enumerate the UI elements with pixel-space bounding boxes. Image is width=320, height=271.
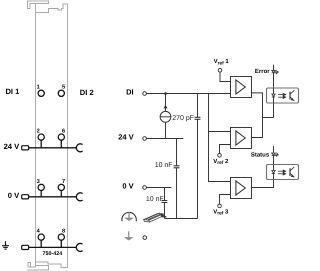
optocoupler status LED xyxy=(273,165,275,171)
module housing bottom-left foot xyxy=(28,262,36,267)
svg-text:3: 3 xyxy=(37,179,40,185)
svg-text:10 nF: 10 nF xyxy=(146,196,164,203)
svg-text:Status: Status xyxy=(251,151,270,158)
svg-text:5: 5 xyxy=(62,85,65,91)
optocoupler status light arrows xyxy=(278,170,286,175)
op-amp comparator U2 box xyxy=(231,128,252,149)
current source circle xyxy=(160,111,171,122)
op-amp comparator U3 box xyxy=(231,178,252,199)
terminal pin 3 xyxy=(38,184,44,190)
svg-text:750-424: 750-424 xyxy=(43,251,63,257)
op-amp comparator U3 triangle xyxy=(236,181,245,195)
module housing bottom plate xyxy=(28,266,49,271)
wire row 3 xyxy=(29,196,77,198)
op-amp comparator U1 box xyxy=(231,77,252,98)
wire Vref2 to U2 xyxy=(220,145,231,154)
svg-text:270 pF: 270 pF xyxy=(172,115,194,122)
wire Vref1 to U1 xyxy=(220,72,231,82)
capacitor C 10nF on V2 xyxy=(176,139,178,166)
terminal pin 5 xyxy=(58,90,64,96)
wire row 4 xyxy=(29,246,77,248)
terminal pin 7 xyxy=(58,184,64,190)
plug terminal row 4 xyxy=(22,245,29,249)
svg-text:1: 1 xyxy=(37,85,40,91)
svg-text:0 V: 0 V xyxy=(122,182,133,191)
svg-text:DI: DI xyxy=(126,87,134,96)
wire error node to opto xyxy=(263,117,274,119)
terminal pin 8 xyxy=(58,234,64,240)
capacitor C 10nF on 0V branch xyxy=(164,188,166,201)
terminal pin 2 xyxy=(38,134,44,140)
terminal pin 6 xyxy=(58,134,64,140)
junction dot DI/current-source xyxy=(164,92,167,95)
svg-text:2: 2 xyxy=(37,129,40,135)
LED Status xyxy=(273,146,275,153)
wire U2 output xyxy=(252,118,263,138)
wire Vref3 to U3 xyxy=(220,195,231,205)
stem pin col1 row 3 xyxy=(40,191,42,197)
cage clamp row 3 xyxy=(76,193,82,201)
optocoupler status phototransistor xyxy=(289,168,291,176)
svg-text:Error: Error xyxy=(255,68,270,75)
optocoupler status box xyxy=(267,165,299,180)
functional earth rail symbol xyxy=(144,213,167,222)
svg-text:0 V: 0 V xyxy=(8,191,20,200)
stem pin col2 row 4 xyxy=(60,240,62,247)
LED Error xyxy=(273,65,275,71)
node Vref1 terminal xyxy=(218,69,222,73)
svg-text:24 V: 24 V xyxy=(4,142,21,151)
wire row 2 xyxy=(29,147,77,149)
current source Q stem + arrow xyxy=(165,94,167,112)
svg-text:DI 1: DI 1 xyxy=(5,87,20,96)
plug terminal row 2 xyxy=(22,146,29,150)
module housing top latch xyxy=(28,1,49,9)
svg-text:DI 2: DI 2 xyxy=(80,88,94,97)
svg-text:24 V: 24 V xyxy=(118,132,133,141)
stem pin col2 row 2 xyxy=(60,140,62,148)
cage clamp row 2 xyxy=(76,144,82,152)
stem pin col1 row 2 xyxy=(40,140,42,148)
node 24V terminal xyxy=(143,137,147,141)
wire ground bus xyxy=(165,218,198,220)
continuation arrow (gray, bottom) xyxy=(124,231,134,240)
wire U3 output to opto2 xyxy=(252,180,274,188)
node 0V terminal xyxy=(143,186,147,190)
optocoupler error phototransistor xyxy=(289,92,291,100)
svg-text:10 nF: 10 nF xyxy=(155,162,173,169)
supply continuation symbol (circle with arrow) xyxy=(122,212,136,221)
op-amp comparator U1 triangle xyxy=(236,80,245,94)
node Vref3 terminal xyxy=(218,204,222,208)
wire signal bus V4 xyxy=(209,94,231,182)
module housing body outline xyxy=(36,4,68,268)
node DI terminal xyxy=(143,92,147,96)
terminal pin 1 xyxy=(38,90,44,96)
wire U1 output xyxy=(252,93,263,118)
optocoupler error LED xyxy=(273,88,275,94)
optocoupler error light arrows xyxy=(278,94,286,99)
terminal pin 4 xyxy=(38,234,44,240)
wire DI line xyxy=(146,93,230,95)
stem pin col2 row 3 xyxy=(60,191,62,197)
wire 0V line xyxy=(146,187,171,189)
node Vref2 terminal xyxy=(218,154,222,158)
current source lower stem xyxy=(165,122,167,138)
plug terminal row 3 xyxy=(22,195,29,199)
cage clamp row 4 xyxy=(76,243,82,251)
capacitor C 270pF on V3 xyxy=(197,94,199,118)
ground symbol (earth) left xyxy=(2,241,9,249)
wire 24V line xyxy=(146,138,183,140)
node open terminal bottom xyxy=(143,236,147,240)
optocoupler error box xyxy=(267,88,299,103)
stem pin col1 row 4 xyxy=(40,240,42,247)
op-amp comparator U2 triangle xyxy=(236,131,245,145)
